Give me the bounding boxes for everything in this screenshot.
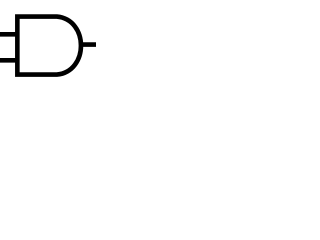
- wire input B: [0, 58, 17, 63]
- AND gate U1 body: [17, 17, 81, 75]
- wire input A: [0, 32, 17, 37]
- wire output Y: [79, 42, 97, 47]
